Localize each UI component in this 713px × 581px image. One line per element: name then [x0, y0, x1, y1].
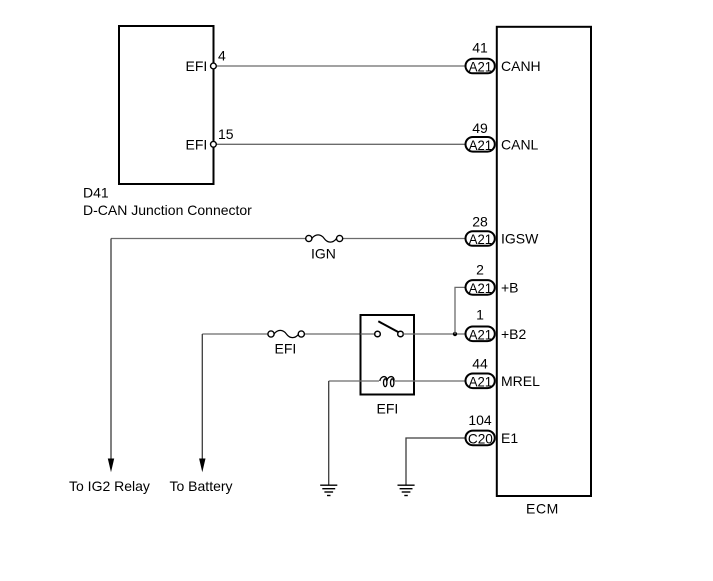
relay EFI box [361, 315, 415, 395]
svg-text:C20: C20 [468, 431, 493, 447]
connector oval C20 pin 104 (E1) [466, 431, 495, 447]
svg-text:28: 28 [472, 214, 488, 230]
ground G1 [320, 485, 337, 495]
relay switch blade [378, 321, 398, 332]
wire coil left lead [329, 380, 379, 382]
svg-text:15: 15 [218, 126, 234, 142]
ground G2 [398, 485, 415, 495]
relay switch left contact [375, 331, 381, 337]
svg-text:CANH: CANH [501, 58, 541, 74]
connector oval A21 pin 1 (+B2) [466, 327, 495, 343]
connector oval A21 pin 49 (CANL) [466, 137, 495, 153]
svg-text:ECM: ECM [526, 501, 559, 517]
relay coil [380, 377, 394, 387]
svg-text:EFI: EFI [377, 401, 399, 417]
svg-text:IGSW: IGSW [501, 231, 539, 247]
svg-text:EFI: EFI [186, 136, 208, 152]
connector D41 box [119, 26, 214, 184]
svg-text:A21: A21 [469, 137, 493, 153]
svg-text:E1: E1 [501, 430, 518, 446]
relay switch right contact [398, 331, 404, 337]
pin 4 of D41 [211, 63, 217, 69]
connector oval A21 pin 44 (MREL) [466, 374, 495, 390]
wire E1 to ground G2 [406, 438, 466, 485]
connector oval A21 pin 28 (IGSW) [466, 231, 495, 247]
svg-text:44: 44 [472, 355, 488, 371]
svg-text:1: 1 [476, 307, 484, 323]
svg-text:A21: A21 [469, 59, 493, 75]
svg-text:49: 49 [472, 120, 488, 136]
svg-text:+B2: +B2 [501, 326, 527, 342]
svg-text:To IG2 Relay: To IG2 Relay [69, 478, 150, 494]
wire coil right lead to MREL pin [394, 380, 466, 382]
wire CANL (D41 pin 15 to ECM pin 49) [216, 143, 465, 145]
wire inside relay to left contact [361, 333, 375, 335]
junction node dot [453, 332, 457, 336]
svg-text:104: 104 [468, 412, 492, 428]
wire branch junction to +B pin [455, 287, 466, 334]
svg-text:EFI: EFI [186, 58, 208, 74]
fuse EFI [268, 330, 305, 337]
svg-text:IGN: IGN [311, 246, 336, 262]
wire coil to ground G1 [328, 381, 330, 485]
svg-text:To Battery: To Battery [170, 478, 233, 494]
svg-text:41: 41 [472, 40, 488, 56]
svg-text:MREL: MREL [501, 373, 540, 389]
ECM box [497, 27, 591, 496]
wire CANH (D41 pin 4 to ECM pin 41) [216, 65, 465, 67]
svg-text:EFI: EFI [275, 341, 297, 357]
fuse IGN [306, 235, 343, 242]
pin 15 of D41 [211, 141, 217, 147]
svg-text:2: 2 [476, 262, 484, 278]
svg-text:A21: A21 [469, 280, 493, 296]
wire IGSW horizontal [111, 238, 306, 240]
wire EFI fuse row [202, 333, 268, 335]
connector oval A21 pin 2 (+B) [466, 280, 495, 296]
wire right contact to +B2 pin [403, 333, 465, 335]
svg-text:D-CAN Junction Connector: D-CAN Junction Connector [83, 202, 252, 218]
arrowhead To IG2 Relay [108, 459, 114, 473]
svg-text:D41: D41 [83, 185, 109, 201]
svg-text:4: 4 [218, 48, 226, 64]
svg-text:A21: A21 [469, 231, 493, 247]
wire to IG2 relay (vertical) [110, 239, 112, 460]
svg-text:A21: A21 [469, 327, 493, 343]
arrowhead To Battery [199, 459, 205, 473]
connector oval A21 pin 41 (CANH) [466, 59, 495, 75]
wire to Battery (vertical) [201, 334, 203, 459]
svg-text:+B: +B [501, 279, 519, 295]
svg-text:CANL: CANL [501, 136, 539, 152]
svg-text:A21: A21 [469, 374, 493, 390]
